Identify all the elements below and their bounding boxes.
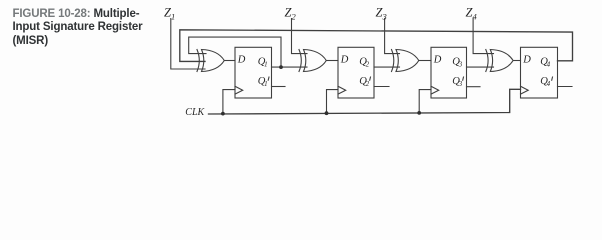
wire CLK bus [209,89,521,114]
junction dot CLK-FF2 [325,111,329,115]
wire Z4 input [473,19,493,54]
clock triangle FF4 [521,86,529,94]
wire CLK branch to FF2 [327,90,339,114]
svg-text:D: D [433,54,442,65]
svg-text:Q4: Q4 [540,76,550,88]
wire CLK branch to FF1 [223,90,235,114]
svg-text:Q1: Q1 [258,56,268,68]
clock triangle FF2 [338,86,346,94]
svg-text:Q2: Q2 [359,76,369,88]
wire Q4' stub [558,86,573,88]
wire Q1' stub [272,86,286,88]
wire XOR3 output to FF3 D [419,60,431,62]
XOR gate G2 [299,50,326,72]
wire XOR4 output to FF4 D [513,60,520,62]
wire Z1 input [171,19,205,70]
wire CLK branch to FF3 [419,90,431,113]
svg-text:Z1: Z1 [164,5,175,21]
wire Q2' stub [374,86,389,88]
svg-text:Q1: Q1 [258,76,268,88]
svg-text:D: D [522,54,531,65]
wire Q2 to XOR3 [374,66,400,68]
wire Z3 input [385,19,400,54]
wire Z2 input [292,19,308,54]
flip-flop FF1 box [235,47,272,98]
svg-text:Z2: Z2 [285,5,297,21]
svg-text:Z3: Z3 [376,5,387,21]
prime tick Q3' [462,77,465,80]
wire XOR1 output to FF1 D [224,60,235,62]
XOR gate G4 [486,50,513,72]
prime tick Q4' [551,77,554,80]
junction dot CLK-FF3 [417,111,421,115]
wire Q1 to XOR2 [272,66,308,68]
junction dot Q1 branch [279,65,283,69]
svg-text:Q2: Q2 [359,56,369,68]
prime tick Q2' [369,77,372,80]
svg-text:Q3: Q3 [452,76,462,88]
clock triangle FF3 [431,86,439,94]
XOR gate G3 [392,50,419,72]
flip-flop FF2 box [338,47,374,98]
svg-text:D: D [340,54,349,65]
svg-text:D: D [237,54,246,65]
junction dot CLK-FF1 [221,112,225,116]
wire XOR2 output to FF2 D [326,60,338,62]
flip-flop FF3 box [431,47,467,98]
wire Q3' stub [467,86,481,88]
XOR gate G1 [197,50,224,72]
svg-text:CLK: CLK [185,107,205,118]
prime tick Q1' [267,77,270,80]
wire feedback from Q4 to XOR1 [180,30,573,62]
wire Q3 to XOR4 [467,66,494,68]
svg-text:Q4: Q4 [540,56,550,68]
svg-text:Z4: Z4 [466,5,478,21]
svg-text:Q3: Q3 [452,56,462,68]
clock triangle FF1 [235,86,243,94]
wire Q1 self-loop to XOR1 [189,37,281,67]
caption [13,8,173,49]
flip-flop FF4 box [521,47,558,98]
